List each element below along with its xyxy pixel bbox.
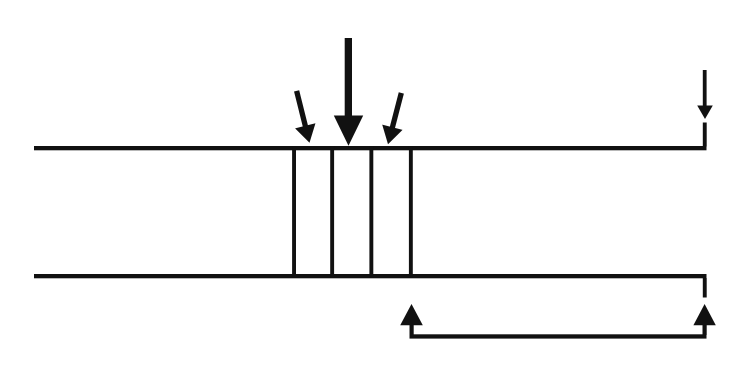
vertical line 1 [292,146,296,278]
right surcharge down arrow [697,70,713,119]
left slant load arrow [286,88,319,145]
bottom beam line [34,274,707,278]
center load arrow [334,38,363,146]
vertical line 2 [330,146,334,278]
top beam line [34,146,707,150]
right reaction up arrow [693,304,715,335]
right slant load arrow [378,90,412,147]
vertical line 4 [409,146,413,278]
left reaction up arrow [400,304,423,335]
right top stub [703,123,707,147]
reaction bracket line [410,334,707,338]
vertical line 3 [369,146,373,278]
right bottom stub [703,278,707,298]
